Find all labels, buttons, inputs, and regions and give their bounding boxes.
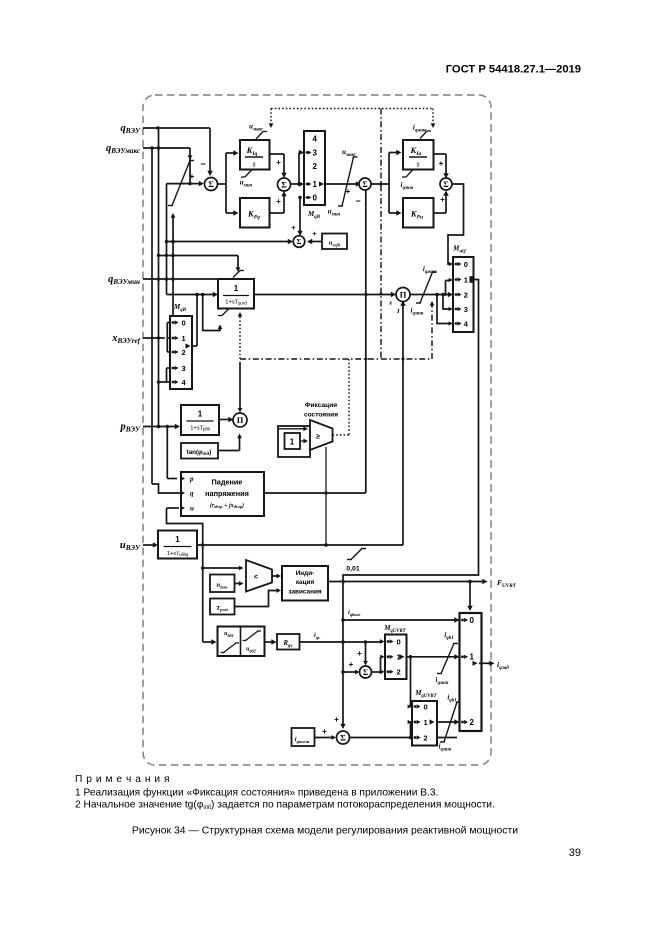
svg-text:+: +: [276, 158, 281, 167]
svg-text:0: 0: [397, 637, 401, 646]
svg-text:2: 2: [464, 290, 468, 299]
svg-text:напряжения: напряжения: [205, 489, 249, 498]
svg-text:1 Реализация функции «Фиксация: 1 Реализация функции «Фиксация состояния…: [75, 787, 438, 799]
svg-text:+: +: [312, 229, 317, 238]
svg-text:s: s: [252, 160, 255, 169]
svg-text:зависания: зависания: [288, 589, 321, 596]
svg-text:−: −: [355, 196, 360, 206]
svg-text:1+sTqord: 1+sTqord: [225, 300, 247, 306]
svg-text:3: 3: [464, 305, 468, 314]
svg-text:состояния: состояния: [304, 412, 338, 419]
svg-text:0: 0: [470, 616, 475, 625]
svg-text:−: −: [200, 159, 205, 169]
svg-text:uдб1: uдб1: [224, 631, 234, 638]
svg-text:+: +: [190, 172, 195, 181]
svg-text:1: 1: [198, 410, 203, 419]
svg-text:Σ: Σ: [297, 237, 302, 246]
svg-text:s: s: [416, 160, 419, 169]
svg-text:Σ: Σ: [363, 668, 368, 677]
svg-text:3: 3: [313, 148, 318, 157]
svg-text:1: 1: [464, 275, 468, 284]
svg-text:39: 39: [569, 847, 581, 859]
svg-text:Падение: Падение: [212, 478, 243, 487]
svg-text:0: 0: [424, 702, 428, 711]
svg-text:кация: кация: [296, 579, 315, 586]
svg-text:0: 0: [464, 260, 468, 269]
svg-text:I: I: [396, 308, 400, 315]
svg-text:1+sTpfilt: 1+sTpfilt: [190, 426, 210, 432]
svg-text:q: q: [190, 490, 194, 498]
svg-text:1: 1: [182, 334, 186, 343]
svg-text:1: 1: [234, 284, 239, 293]
svg-text:+: +: [440, 195, 445, 204]
svg-text:1: 1: [424, 718, 428, 727]
svg-text:+: +: [346, 187, 351, 196]
svg-text:p: p: [189, 475, 194, 483]
svg-text:ГОСТ Р 54418.27.1—2019: ГОСТ Р 54418.27.1—2019: [446, 64, 581, 76]
svg-text:Инди-: Инди-: [296, 570, 315, 577]
svg-text:1: 1: [313, 180, 318, 189]
svg-text:Σ: Σ: [443, 180, 448, 189]
svg-text:+: +: [322, 727, 327, 736]
svg-text:uдб2: uдб2: [246, 647, 257, 654]
svg-text:1: 1: [290, 438, 295, 447]
svg-text:3: 3: [182, 364, 186, 373]
svg-text:2: 2: [313, 162, 318, 171]
svg-text:Σ: Σ: [362, 180, 367, 189]
svg-text:1+sTufiltq: 1+sTufiltq: [167, 551, 189, 557]
svg-text:0: 0: [313, 193, 318, 202]
svg-text:+: +: [276, 197, 281, 206]
svg-text:П р и м е ч а н и я: П р и м е ч а н и я: [75, 774, 170, 785]
svg-text:Σ: Σ: [208, 179, 214, 189]
svg-text:1: 1: [470, 653, 475, 662]
svg-text:2: 2: [182, 348, 186, 357]
svg-text:Π: Π: [237, 415, 244, 425]
svg-text:2: 2: [470, 718, 475, 727]
svg-text:4: 4: [313, 134, 318, 143]
svg-text:2: 2: [424, 733, 428, 742]
svg-text:≥: ≥: [316, 434, 320, 441]
svg-text:Π: Π: [400, 290, 407, 300]
svg-text:+: +: [291, 223, 296, 232]
svg-text:+: +: [349, 660, 354, 669]
svg-text:0: 0: [182, 318, 186, 327]
svg-text:+: +: [357, 649, 362, 658]
svg-text:Σ: Σ: [281, 180, 287, 190]
svg-text:+: +: [439, 159, 444, 168]
svg-text:Σ: Σ: [340, 733, 346, 743]
svg-text:Рисунок 34 — Структурная схема: Рисунок 34 — Структурная схема модели ре…: [132, 826, 518, 837]
svg-text:+: +: [334, 715, 339, 724]
svg-text:u: u: [190, 505, 194, 513]
svg-text:<: <: [254, 572, 259, 581]
svg-text:2: 2: [397, 668, 401, 677]
svg-text:0,01: 0,01: [346, 566, 359, 573]
svg-text:Фиксация: Фиксация: [305, 402, 337, 409]
svg-text:2 Начальное значение tg(φinit): 2 Начальное значение tg(φinit) задается …: [75, 800, 495, 812]
svg-text:1: 1: [175, 535, 180, 544]
